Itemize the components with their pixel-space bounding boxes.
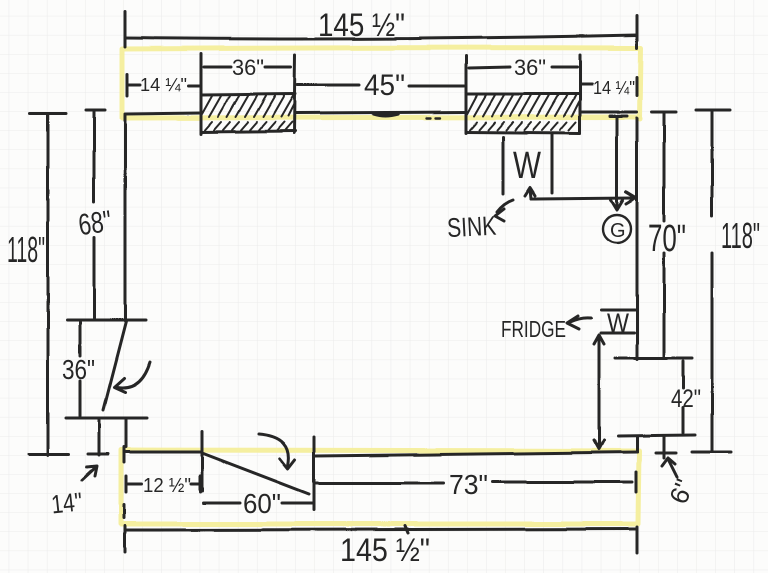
yellow highlight top wall — [122, 48, 641, 119]
door bottom tick — [66, 417, 147, 420]
wall stub below door a — [98, 419, 101, 455]
sink arrow horizontal — [531, 198, 633, 199]
counter left tick — [201, 432, 204, 491]
dim 6 tick vertical — [663, 436, 666, 458]
sink label arrow — [497, 200, 513, 212]
dimension 145 1/2 top line — [125, 35, 637, 39]
counter diagonal — [202, 453, 309, 494]
dim 73 right tick — [635, 472, 638, 492]
dim 12 1/2 line — [127, 483, 199, 486]
window W2 right jamb — [579, 55, 582, 133]
svg-text:14 ¼": 14 ¼" — [593, 78, 635, 98]
gas line vertical — [616, 118, 619, 207]
fridge position arrowhead up — [594, 335, 604, 344]
svg-text:36": 36" — [514, 55, 546, 80]
top wall inner line left segment — [125, 113, 201, 114]
sink arrowhead right — [626, 192, 636, 204]
window W2 box top — [466, 93, 580, 96]
svg-text:FRIDGE: FRIDGE — [501, 316, 566, 342]
svg-text:12 ½": 12 ½" — [143, 475, 191, 497]
gas circle — [603, 215, 631, 243]
dim 68 line — [93, 111, 96, 318]
dim 45 line — [297, 85, 464, 86]
dim 42 line — [682, 361, 685, 433]
svg-text:36": 36" — [232, 55, 264, 80]
bottom line mid slash — [405, 526, 408, 533]
svg-text:73": 73" — [449, 469, 488, 500]
dim 36 door line — [79, 322, 82, 416]
gas line top cap — [610, 115, 627, 118]
water tick upper (fridge) — [601, 309, 635, 312]
svg-text:145 ½": 145 ½" — [340, 532, 430, 568]
bottom wall left end vertical — [124, 447, 125, 552]
door swing arrowhead — [114, 378, 125, 392]
counter right tick — [313, 437, 316, 510]
svg-text:G: G — [610, 220, 626, 242]
dim 70 top cap — [652, 111, 676, 114]
dimension 145 1/2 top right tick — [636, 16, 639, 48]
dim 12 1/2 right tick — [199, 476, 202, 492]
svg-text:145 ½": 145 ½" — [318, 7, 405, 43]
svg-text:118": 118" — [7, 229, 45, 270]
arrowhead 6 — [662, 458, 675, 466]
dim 118 left top cap — [30, 112, 66, 115]
window W2 hatch — [467, 95, 579, 130]
svg-text:W: W — [513, 145, 541, 187]
wall line dots — [427, 117, 440, 119]
dim 145 1/2 bottom line — [126, 529, 637, 530]
wall stub below door b — [125, 419, 128, 447]
wall line dip blob — [374, 114, 398, 116]
yellow highlight bottom wall — [121, 450, 639, 524]
dim 60 line — [203, 502, 313, 505]
top wall inner line middle segment — [295, 112, 466, 113]
svg-text:14 ¼": 14 ¼" — [140, 75, 187, 95]
dim 70 line — [663, 112, 666, 357]
svg-text:118": 118" — [721, 215, 760, 256]
arrow 14 — [82, 467, 96, 480]
arrowhead 14 — [87, 466, 97, 476]
right wall upper — [636, 118, 639, 359]
window W1 right jamb — [294, 55, 295, 133]
door top tick — [67, 319, 146, 322]
svg-text:68": 68" — [76, 205, 113, 242]
fridge position arrow line — [598, 337, 601, 447]
bottom-left cap b — [88, 453, 108, 456]
svg-text:SINK: SINK — [446, 211, 497, 244]
yellow highlight top wall bottom edge — [122, 117, 640, 118]
left wall — [124, 115, 127, 321]
sink arrow riser — [530, 189, 531, 199]
fridge label arrowhead — [567, 316, 579, 329]
dim 14 1/4 left line a — [128, 84, 140, 87]
window W1 box bottom — [201, 131, 295, 132]
window W1 left jamb — [200, 54, 203, 134]
window W2 box bottom — [466, 132, 580, 133]
dim 14 1/4 right tick — [636, 77, 639, 95]
water tick lower (fridge) — [601, 332, 634, 335]
sink label arrowhead — [495, 209, 504, 221]
svg-text:70": 70" — [648, 218, 686, 260]
door swing arrow — [117, 362, 150, 387]
window W1 hatch — [202, 96, 294, 130]
dimension 145 1/2 top left tick — [124, 12, 127, 47]
svg-text:45": 45" — [364, 69, 405, 102]
sink supply line left — [502, 137, 505, 194]
bottom wall top line right segment — [315, 452, 637, 456]
bottom wall top line left segment — [126, 451, 201, 454]
dim 68 top cap — [86, 109, 105, 112]
dim 36 right line — [469, 67, 577, 68]
gas arrowhead down — [611, 200, 623, 210]
svg-text:14": 14" — [50, 486, 84, 519]
top wall inner line right segment — [580, 111, 637, 114]
dim 73 line — [316, 482, 632, 483]
dim 118 left bottom cap — [29, 453, 69, 456]
dim 14 1/4 left line b — [188, 85, 201, 88]
dim 118 right line — [711, 110, 714, 452]
dim 118 right bottom cap — [692, 451, 731, 454]
dim 14 1/4 right line a — [580, 83, 592, 86]
dim 118 left line — [47, 113, 50, 455]
window W2 left jamb — [465, 56, 468, 133]
dim 12 1/2 left tick — [125, 476, 128, 492]
svg-text:60": 60" — [243, 488, 281, 519]
dim 6 tick horizontal — [656, 452, 676, 455]
dim 36 left line — [204, 66, 291, 69]
sink arrowhead up — [525, 188, 535, 196]
dim 118 right top cap — [696, 109, 730, 112]
dim 14 1/4 left tick — [126, 74, 129, 96]
dim 145 1/2 bottom right tick — [636, 527, 639, 553]
svg-text:36": 36" — [62, 354, 95, 385]
svg-text:W: W — [607, 308, 629, 338]
fridge alcove top — [615, 357, 692, 360]
svg-text:42": 42" — [671, 385, 701, 413]
counter swing arrow — [259, 434, 289, 466]
fridge alcove bottom — [618, 435, 695, 436]
door leaf — [103, 321, 126, 410]
fridge position arrowhead down — [594, 440, 604, 449]
sink supply line right — [551, 134, 554, 193]
arrow 6 line — [669, 461, 677, 477]
window W1 box top — [201, 94, 295, 95]
counter swing arrowhead — [280, 459, 295, 469]
fridge label arrow — [570, 318, 591, 322]
right wall lower stub — [636, 436, 639, 452]
